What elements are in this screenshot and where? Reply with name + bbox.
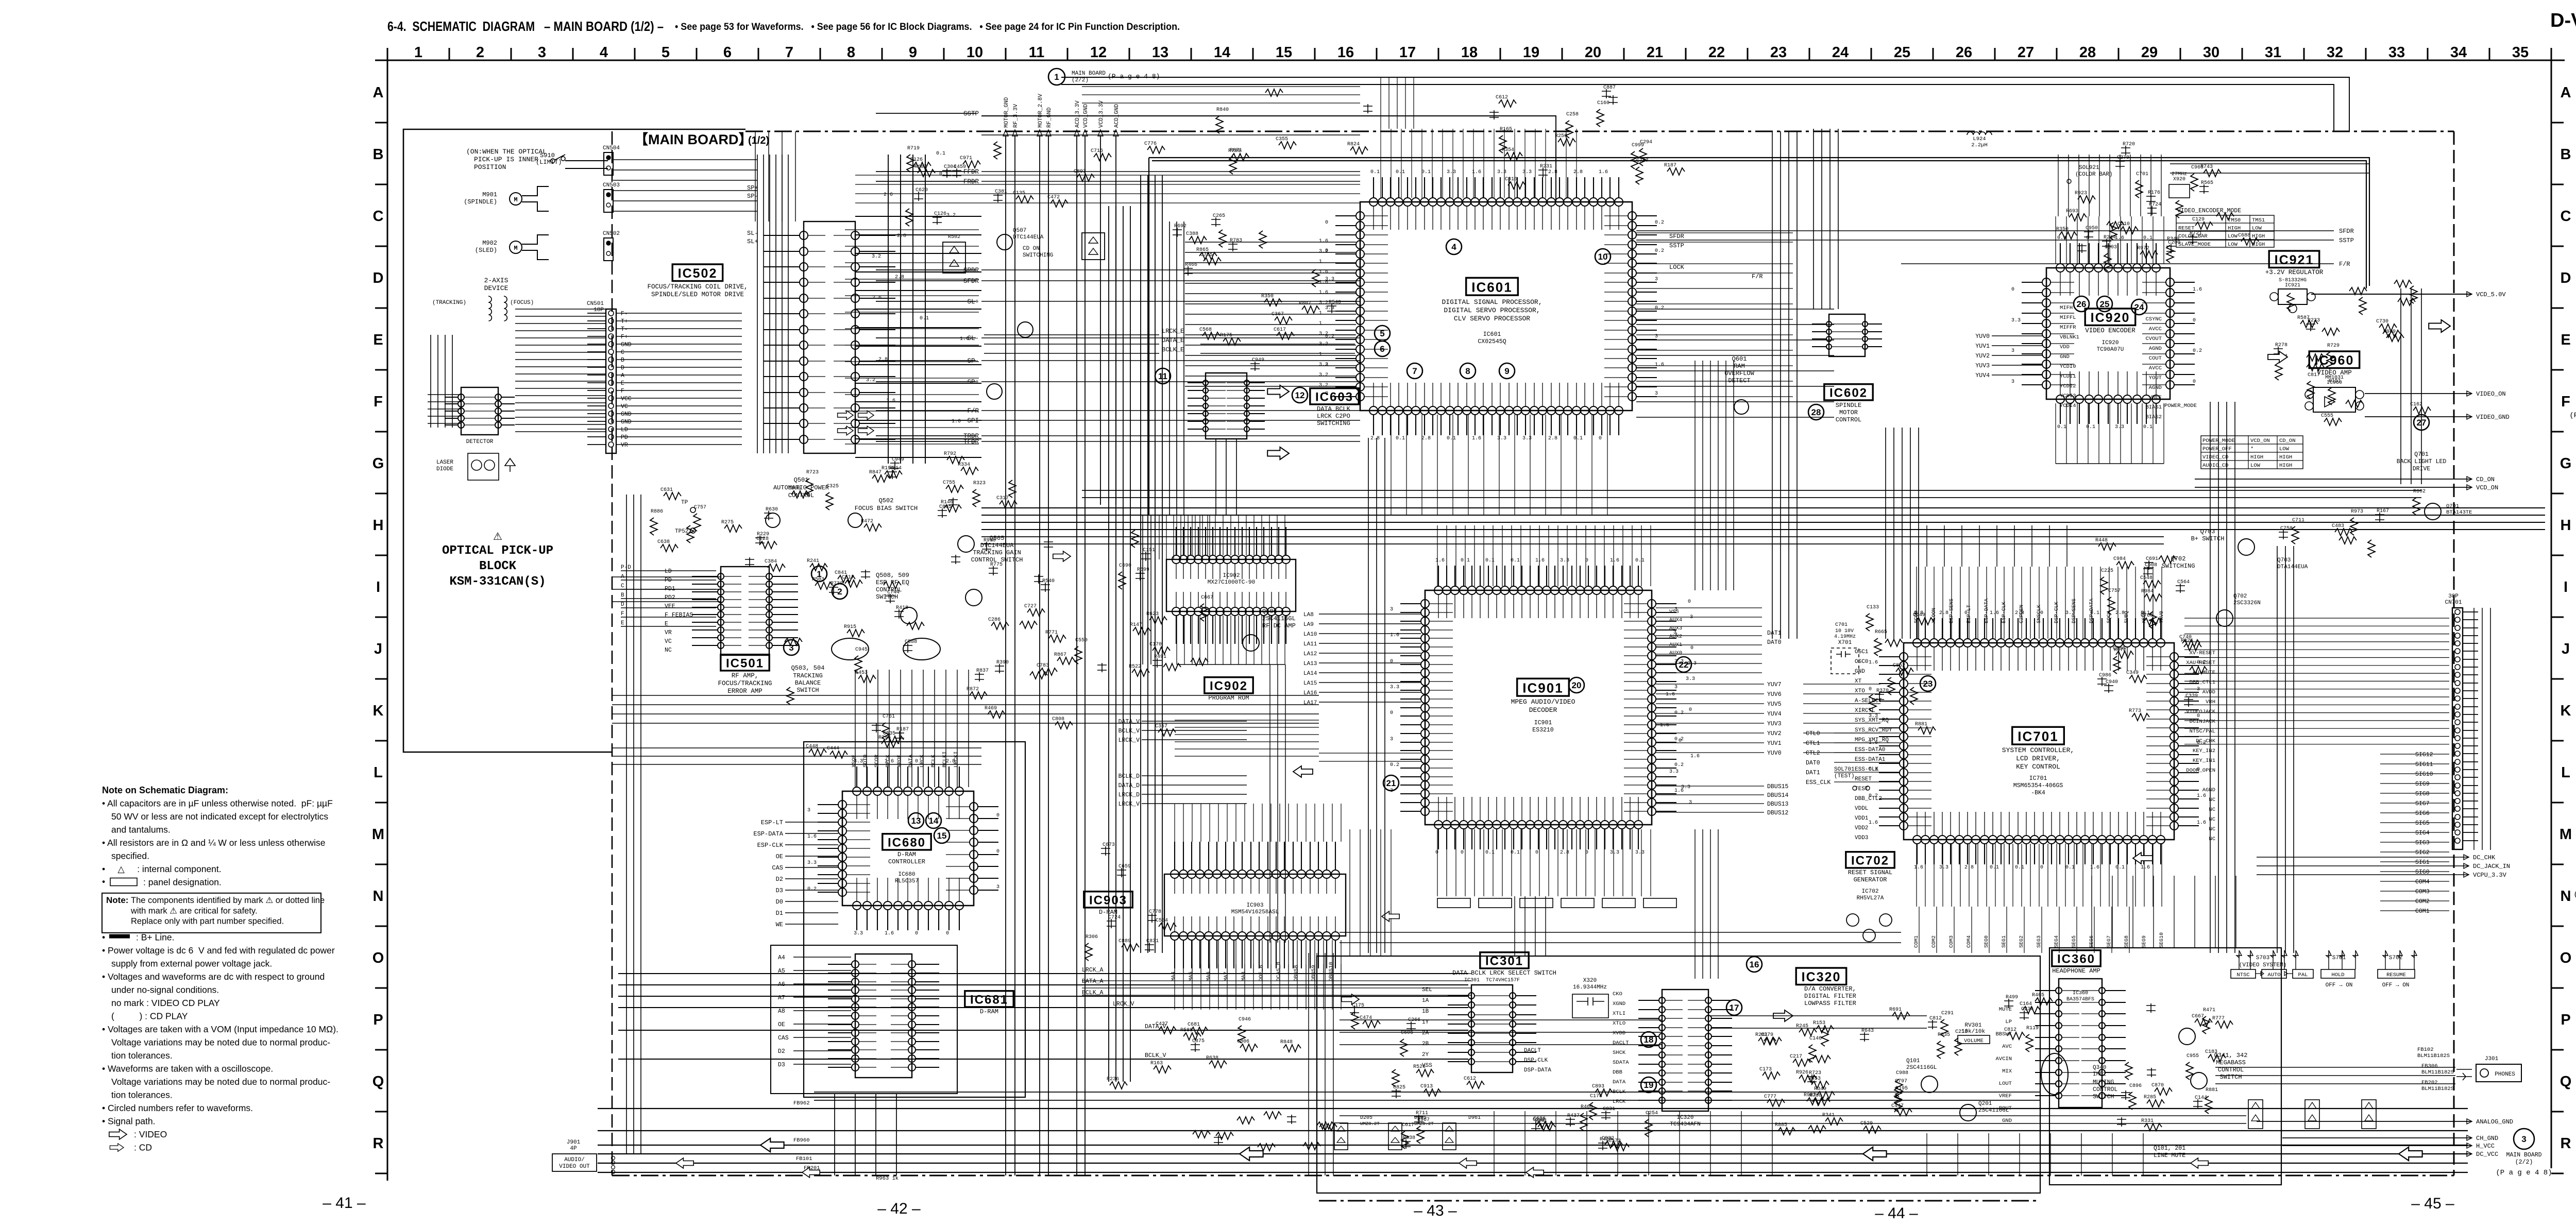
svg-text:0.1: 0.1 xyxy=(1421,169,1431,175)
svg-text:LA17: LA17 xyxy=(1303,700,1317,706)
svg-text:R867: R867 xyxy=(1054,652,1066,658)
svg-text:DETECT: DETECT xyxy=(1728,377,1750,384)
svg-text:FB202: FB202 xyxy=(2421,1080,2438,1086)
svg-text:AUX1: AUX1 xyxy=(1669,642,1682,648)
svg-text:BTA143TE: BTA143TE xyxy=(2446,509,2472,516)
svg-text:Note:: Note: xyxy=(106,895,128,905)
svg-text:Q: Q xyxy=(372,1073,384,1090)
svg-text:and tantalums.: and tantalums. xyxy=(111,825,171,835)
svg-text:IC701: IC701 xyxy=(2029,775,2047,782)
IC960 chip xyxy=(2313,387,2355,412)
svg-text:SYSTEM CONTROLLER,: SYSTEM CONTROLLER, xyxy=(2002,746,2074,754)
svg-text:HIGH: HIGH xyxy=(2252,233,2265,240)
IC681 D-RAM chip xyxy=(855,954,912,1078)
svg-text:BCLK_A: BCLK_A xyxy=(1082,990,1104,996)
svg-text:YCDI3: YCDI3 xyxy=(2060,393,2076,399)
svg-text:C349: C349 xyxy=(2126,670,2139,676)
svg-text:C971: C971 xyxy=(960,156,972,161)
svg-text:FOCUS BIAS SWITCH: FOCUS BIAS SWITCH xyxy=(855,505,918,512)
svg-text:YUV5: YUV5 xyxy=(1767,701,1782,708)
svg-text:D: D xyxy=(373,270,384,286)
svg-text:COM1: COM1 xyxy=(1914,935,1920,948)
svg-text:ANALOG_GND: ANALOG_GND xyxy=(2476,1118,2513,1126)
wire v 3290 lower xyxy=(1695,829,1718,979)
wire risers right audio xyxy=(1927,1133,2143,1175)
svg-text:K: K xyxy=(2561,703,2571,719)
svg-text:1A: 1A xyxy=(1422,998,1429,1004)
svg-text:Q101, 201: Q101, 201 xyxy=(2154,1145,2185,1152)
IC601 label xyxy=(1466,278,1518,295)
svg-text:31: 31 xyxy=(2265,44,2281,61)
svg-text:8: 8 xyxy=(1465,366,1470,376)
svg-text:C160: C160 xyxy=(1597,100,1609,106)
svg-text:50 WV or less are not indicate: 50 WV or less are not indicated except f… xyxy=(111,811,328,822)
svg-text:VDDL: VDDL xyxy=(1855,806,1868,812)
IC903 D-RAM xyxy=(1164,874,1346,936)
svg-text:ESS-CLK: ESS-CLK xyxy=(1855,766,1879,773)
megabass verticals xyxy=(2092,876,2236,948)
IC681 label xyxy=(965,991,1013,1007)
svg-text:R719: R719 xyxy=(907,146,920,151)
svg-text:2SC3326N: 2SC3326N xyxy=(2233,600,2261,606)
svg-text:R984: R984 xyxy=(2141,589,2154,594)
svg-text:M: M xyxy=(2560,826,2572,843)
svg-text:IC901: IC901 xyxy=(1522,680,1563,695)
svg-text:IC603: IC603 xyxy=(1315,390,1353,404)
svg-text:ESP-SENS: ESP-SENS xyxy=(1949,599,1955,623)
svg-text:C688: C688 xyxy=(2238,233,2250,238)
svg-text:SUBQ: SUBQ xyxy=(2124,611,2130,623)
svg-text:H: H xyxy=(2561,517,2571,534)
svg-text:C812: C812 xyxy=(2004,1027,2016,1033)
svg-text:MX27C1000TC-90: MX27C1000TC-90 xyxy=(1208,580,1255,586)
svg-text:2.8: 2.8 xyxy=(897,233,906,239)
svg-text:N: N xyxy=(2561,888,2571,905)
svg-text:DBUS13: DBUS13 xyxy=(1767,801,1789,808)
svg-text:POWER_MODE: POWER_MODE xyxy=(2164,403,2197,409)
svg-text:VREF: VREF xyxy=(1999,1093,2012,1099)
svg-text:IC301: IC301 xyxy=(1485,955,1523,968)
IC603 switch IC xyxy=(1206,373,1247,439)
wire IC902 top bus xyxy=(1177,515,1285,555)
IC320 DAC chip xyxy=(1662,990,1708,1111)
IC602 label xyxy=(1824,384,1873,400)
svg-text:R602: R602 xyxy=(2413,489,2426,495)
svg-text:COM4: COM4 xyxy=(2415,879,2430,885)
svg-text:BCLKI: BCLKI xyxy=(942,751,948,768)
svg-text:VIDEO_ENCODER_MODE: VIDEO_ENCODER_MODE xyxy=(2177,208,2241,214)
svg-text:C133: C133 xyxy=(1867,605,1879,610)
svg-text:AUX0: AUX0 xyxy=(1669,650,1682,656)
svg-text:SEG5: SEG5 xyxy=(2072,935,2077,948)
IC602 spindle motor control IC xyxy=(1829,314,1865,356)
svg-text:3.3: 3.3 xyxy=(807,860,817,866)
svg-text:1.6: 1.6 xyxy=(2141,865,2150,871)
svg-text:1.6: 1.6 xyxy=(2193,287,2202,293)
muting control switch xyxy=(2041,1053,2068,1095)
X920 crystal xyxy=(2169,184,2190,198)
svg-text:A4: A4 xyxy=(778,955,785,961)
svg-text:YUV2: YUV2 xyxy=(1975,353,1990,360)
svg-text:P: P xyxy=(373,1012,383,1028)
svg-text:(TEST): (TEST) xyxy=(1834,773,1855,779)
svg-text:0: 0 xyxy=(2193,318,2196,323)
svg-text:LOW: LOW xyxy=(2228,233,2238,240)
svg-text:0.1: 0.1 xyxy=(2086,424,2095,430)
svg-text:DEVICE: DEVICE xyxy=(484,284,509,292)
svg-text:C966: C966 xyxy=(2191,165,2204,171)
svg-text:3: 3 xyxy=(1689,800,1692,806)
svg-text:VDD1: VDD1 xyxy=(1855,815,1869,822)
svg-text:VCD_ON: VCD_ON xyxy=(2250,438,2270,444)
wire CN701 harness xyxy=(2277,618,2449,744)
wire v 3290 group xyxy=(1695,361,1734,590)
svg-text:MPG_XMT_RQ: MPG_XMT_RQ xyxy=(1855,737,1889,743)
svg-text:R453: R453 xyxy=(1808,1076,1821,1082)
svg-text:6-4. SCHEMATIC DIAGRAM: 6-4. SCHEMATIC DIAGRAM xyxy=(387,19,535,34)
svg-text:A: A xyxy=(373,84,384,101)
wire IC502 right to bus xyxy=(845,230,979,444)
svg-text:27MHz: 27MHz xyxy=(2172,172,2187,177)
wire IC502 drive outputs xyxy=(855,216,981,457)
svg-text:• Voltages are taken with a VO: • Voltages are taken with a VOM (Input i… xyxy=(102,1024,338,1034)
svg-text:9: 9 xyxy=(1504,366,1509,376)
svg-text:C885: C885 xyxy=(939,504,952,510)
svg-text:R847: R847 xyxy=(869,470,882,475)
svg-text:0: 0 xyxy=(1535,850,1538,856)
svg-text:23: 23 xyxy=(1923,679,1933,689)
svg-text:AUDIO_CD: AUDIO_CD xyxy=(2202,463,2228,469)
svg-text:2SC4116GL: 2SC4116GL xyxy=(1906,1065,1937,1071)
svg-text:1.6: 1.6 xyxy=(1660,723,1669,728)
svg-text:3: 3 xyxy=(1390,607,1393,612)
svg-text:R187: R187 xyxy=(1664,163,1676,168)
svg-text:C483: C483 xyxy=(2332,523,2344,529)
IC301 select switch IC xyxy=(1471,985,1513,1072)
svg-text:COM3: COM3 xyxy=(1949,935,1955,948)
svg-text:SIG12: SIG12 xyxy=(2415,752,2433,758)
svg-text:1: 1 xyxy=(817,569,821,579)
svg-text:PAL: PAL xyxy=(2298,972,2308,978)
svg-text:1.6: 1.6 xyxy=(1914,865,1923,871)
svg-text:DATA_D: DATA_D xyxy=(1118,782,1140,789)
svg-text:C566: C566 xyxy=(2113,646,2125,652)
svg-text:A7: A7 xyxy=(778,995,785,1001)
svg-text:A: A xyxy=(621,372,624,379)
svg-text:Q703: Q703 xyxy=(2277,557,2291,564)
wire IC920 top xyxy=(2056,216,2164,264)
svg-text:ESP-DATA: ESP-DATA xyxy=(753,830,783,838)
svg-text:YUV1: YUV1 xyxy=(1767,740,1782,747)
svg-text:C: C xyxy=(621,349,624,356)
svg-text:• △ : internal compone: • △ : internal component. xyxy=(102,864,222,874)
power mode table xyxy=(2201,436,2303,469)
wire LRCK_A rows xyxy=(618,974,1468,1008)
component scatter IC921 area xyxy=(2287,293,2294,311)
svg-text:TC9434AFN: TC9434AFN xyxy=(1670,1121,1700,1128)
wire left low bundle xyxy=(626,495,641,1154)
svg-text:C504: C504 xyxy=(1156,918,1168,924)
wire optical harness xyxy=(515,309,606,432)
svg-text:SIG5: SIG5 xyxy=(2415,820,2430,827)
svg-text:The components identified by m: The components identified by mark ⚠ or d… xyxy=(131,896,325,905)
svg-text:C453: C453 xyxy=(855,670,868,676)
svg-text:LA16: LA16 xyxy=(1303,690,1317,696)
svg-text:DATA: DATA xyxy=(1613,1079,1626,1085)
component scatter audio xyxy=(1895,1095,1902,1112)
svg-text:R923: R923 xyxy=(2075,191,2087,196)
svg-text:C831: C831 xyxy=(1603,1106,1615,1112)
svg-text:R176: R176 xyxy=(2148,190,2160,196)
wave marks IC901 xyxy=(1569,677,1584,693)
wire IC502 left harness xyxy=(757,155,788,453)
svg-text:R126: R126 xyxy=(910,157,923,163)
wire LCD column xyxy=(2277,546,2294,953)
svg-text:R587: R587 xyxy=(2297,315,2310,321)
svg-text:AVCC: AVCC xyxy=(2149,326,2162,332)
svg-text:D205: D205 xyxy=(1360,1115,1372,1121)
svg-text:Q201: Q201 xyxy=(1978,1101,1992,1107)
svg-text:F: F xyxy=(621,388,624,395)
connector CN501 18P xyxy=(606,309,616,453)
svg-text:0: 0 xyxy=(2193,379,2196,385)
component scatter above IC601 xyxy=(1602,89,1611,98)
svg-text:1.6: 1.6 xyxy=(960,336,969,342)
svg-text:SIG11: SIG11 xyxy=(2415,761,2433,768)
svg-text:R119: R119 xyxy=(2026,1026,2039,1031)
svg-text:0.2: 0.2 xyxy=(1674,762,1684,768)
svg-text:YUV3: YUV3 xyxy=(1975,363,1990,369)
svg-text:C889: C889 xyxy=(1118,939,1131,944)
svg-text:19: 19 xyxy=(1644,1080,1654,1090)
wire IC903 bottom bus xyxy=(1175,964,1341,1010)
svg-text:VSS: VSS xyxy=(1669,609,1679,615)
svg-text:0: 0 xyxy=(1689,707,1692,713)
svg-text:tion tolerances.: tion tolerances. xyxy=(111,1090,173,1100)
IC680 D-RAM controller xyxy=(842,791,974,906)
svg-text:VDD2: VDD2 xyxy=(1855,825,1868,831)
svg-text:-BK4: -BK4 xyxy=(2031,790,2045,796)
svg-text:X701: X701 xyxy=(1838,640,1852,646)
component scatter row H left xyxy=(687,525,694,543)
wire IC501 outputs xyxy=(612,695,1319,723)
svg-text:0.1: 0.1 xyxy=(1635,558,1645,564)
svg-text:12: 12 xyxy=(1295,390,1305,400)
svg-text:0: 0 xyxy=(915,931,918,936)
svg-text:DIGITAL FILTER: DIGITAL FILTER xyxy=(1804,993,1856,1000)
svg-text:R643: R643 xyxy=(1861,1028,1874,1034)
component scatter megabass xyxy=(2121,1090,2130,1100)
svg-text:DSP-CLK: DSP-CLK xyxy=(1524,1058,1548,1064)
svg-text:CAS: CAS xyxy=(772,864,783,872)
connector ref 1 to main board 2/2 xyxy=(1048,69,1065,85)
svg-text:• Signal path.: • Signal path. xyxy=(102,1116,155,1127)
svg-text:26: 26 xyxy=(1956,44,1972,61)
svg-text:0.1: 0.1 xyxy=(1573,436,1583,441)
svg-text:C437: C437 xyxy=(1156,1021,1168,1027)
IC320 label xyxy=(1796,968,1846,985)
svg-text:PD2: PD2 xyxy=(665,594,675,601)
svg-text:C945: C945 xyxy=(855,647,868,653)
svg-text:C817: C817 xyxy=(2308,372,2320,378)
laser diode xyxy=(468,453,499,480)
svg-text:2.8: 2.8 xyxy=(1560,850,1569,856)
svg-text:R275: R275 xyxy=(721,520,734,525)
svg-text:R630: R630 xyxy=(766,507,778,513)
svg-text:2.8: 2.8 xyxy=(2115,610,2125,616)
svg-text:BLOCK: BLOCK xyxy=(479,559,517,573)
svg-text:IC702: IC702 xyxy=(1861,889,1878,895)
svg-text:26: 26 xyxy=(2077,299,2087,309)
svg-text:R241: R241 xyxy=(807,558,819,564)
svg-text:FB962: FB962 xyxy=(793,1100,810,1106)
svg-text:9: 9 xyxy=(909,44,917,61)
svg-text:CN701: CN701 xyxy=(2445,600,2462,606)
svg-text:MIX: MIX xyxy=(2002,1068,2012,1075)
svg-text:3: 3 xyxy=(1673,630,1676,636)
svg-text:K: K xyxy=(373,703,384,719)
diode bridge D502 xyxy=(943,242,965,273)
svg-text:YUV0: YUV0 xyxy=(1767,750,1782,757)
wire h 1120-1180 left xyxy=(612,577,721,602)
svg-text:21: 21 xyxy=(1647,44,1663,61)
svg-text:OSC1: OSC1 xyxy=(1855,649,1869,655)
svg-text:VDD: VDD xyxy=(2060,344,2070,350)
svg-text:DBB: DBB xyxy=(1613,1069,1622,1076)
svg-text:DTA144EUA: DTA144EUA xyxy=(2277,564,2308,570)
svg-text:R729: R729 xyxy=(2327,343,2340,349)
svg-text:CD_ON: CD_ON xyxy=(2476,476,2495,483)
svg-text:3.3: 3.3 xyxy=(1669,769,1679,775)
svg-text:1.6: 1.6 xyxy=(2197,820,2206,826)
svg-text:IC702: IC702 xyxy=(1851,854,1889,868)
svg-text:AVCC: AVCC xyxy=(2149,365,2162,371)
svg-text:R826: R826 xyxy=(2181,638,2193,644)
wire right column nets xyxy=(1772,131,1797,639)
svg-text:LRCK C2PO: LRCK C2PO xyxy=(1317,413,1350,420)
svg-text:KEY CONTROL: KEY CONTROL xyxy=(2016,763,2060,771)
svg-text:SNSCLK: SNSCLK xyxy=(2037,605,2042,623)
IC701 label xyxy=(2012,727,2064,744)
svg-text:R792: R792 xyxy=(944,451,956,457)
svg-text:3.2: 3.2 xyxy=(1319,300,1328,306)
IC901 MPEG audio/video decoder xyxy=(1425,590,1652,825)
svg-text:C339: C339 xyxy=(2185,693,2198,699)
svg-text:– MAIN BOARD (1/2) –: – MAIN BOARD (1/2) – xyxy=(544,19,664,34)
svg-text:CLV SERVO PROCESSOR: CLV SERVO PROCESSOR xyxy=(1454,315,1530,322)
svg-text:LA15: LA15 xyxy=(1303,680,1317,687)
svg-text:DIODE: DIODE xyxy=(436,466,453,472)
svg-text:R390: R390 xyxy=(996,660,1009,666)
svg-text:MA8: MA8 xyxy=(1241,972,1247,981)
svg-text:(P a g e 4 8): (P a g e 4 8) xyxy=(1108,73,1160,80)
svg-text:C875: C875 xyxy=(1192,1038,1205,1044)
svg-text:BCLK_V: BCLK_V xyxy=(1118,728,1140,735)
svg-text:SP-: SP- xyxy=(967,357,979,365)
svg-text:TMS0: TMS0 xyxy=(2228,217,2241,224)
svg-text:CN503: CN503 xyxy=(603,182,620,189)
svg-text:R448: R448 xyxy=(2095,538,2108,543)
svg-text:LA9: LA9 xyxy=(1303,622,1314,628)
connector ref 3b to main board 2/2 xyxy=(2514,1129,2534,1149)
svg-text:3.3: 3.3 xyxy=(1610,850,1619,856)
svg-text:Replace only with part number: Replace only with part number specified. xyxy=(131,917,284,926)
svg-text:C325: C325 xyxy=(826,484,839,489)
svg-text:Q701: Q701 xyxy=(2446,503,2459,509)
wire IC601 to IC902 bus xyxy=(1159,515,1210,559)
IC960 label xyxy=(2309,351,2360,368)
vertical bus V2 xyxy=(1141,175,1162,953)
svg-text:3: 3 xyxy=(2197,687,2200,692)
svg-text:BLM11B182S: BLM11B182S xyxy=(2421,1069,2454,1076)
svg-text:14: 14 xyxy=(929,816,939,826)
svg-text:0.2: 0.2 xyxy=(1390,762,1399,768)
svg-text:BIAS1: BIAS1 xyxy=(2145,404,2162,411)
svg-text:MAIN BOARD: MAIN BOARD xyxy=(2506,1152,2541,1158)
svg-text:(VIDEO SYSTEM): (VIDEO SYSTEM) xyxy=(2239,962,2286,968)
svg-text:R691: R691 xyxy=(1889,1007,1902,1013)
svg-text:LOCK: LOCK xyxy=(1669,264,1685,271)
svg-text:F: F xyxy=(621,611,624,617)
svg-text:SWITCH: SWITCH xyxy=(2093,1094,2114,1100)
IC702 part xyxy=(1846,914,1859,926)
svg-text:0.1: 0.1 xyxy=(2057,424,2066,430)
svg-text:L: L xyxy=(2561,764,2570,781)
svg-text:DSP-DATA: DSP-DATA xyxy=(2089,599,2095,623)
svg-text:SHCK: SHCK xyxy=(1613,1050,1626,1056)
svg-text:BALANCE: BALANCE xyxy=(795,679,821,687)
svg-text:DC_CHK: DC_CHK xyxy=(2473,854,2496,861)
svg-text:C812: C812 xyxy=(1929,1016,1942,1021)
svg-text:FB960: FB960 xyxy=(793,1137,810,1144)
IC920 label xyxy=(2085,309,2136,326)
svg-text:3.3: 3.3 xyxy=(1497,169,1506,175)
svg-text:C701: C701 xyxy=(2136,172,2148,177)
svg-text:*: * xyxy=(2250,446,2253,452)
svg-text:C355: C355 xyxy=(1276,137,1288,142)
svg-text:HIGH: HIGH xyxy=(2250,454,2263,461)
svg-text:+3.2V REGULATOR: +3.2V REGULATOR xyxy=(2265,269,2324,276)
svg-text:R840: R840 xyxy=(1216,107,1229,113)
svg-text:R973: R973 xyxy=(2351,509,2363,515)
svg-text:SWITCH: SWITCH xyxy=(796,687,819,694)
svg-text:R163: R163 xyxy=(1150,1061,1163,1066)
svg-text:UMZ8.2T: UMZ8.2T xyxy=(1360,1121,1380,1127)
svg-text:C955: C955 xyxy=(2187,1053,2199,1059)
IC502 focus/tracking coil drive IC xyxy=(804,221,855,453)
svg-text:R540: R540 xyxy=(1042,578,1055,584)
svg-text:24: 24 xyxy=(1832,44,1849,61)
svg-text:VOLUME: VOLUME xyxy=(1964,1038,1984,1044)
IC903 bottom drops xyxy=(1175,940,1341,974)
svg-text:33: 33 xyxy=(2388,44,2405,61)
svg-text:0: 0 xyxy=(1325,220,1328,226)
svg-text:DBB_CTL2: DBB_CTL2 xyxy=(1855,796,1882,802)
component scatter IC960 area xyxy=(2307,381,2314,399)
svg-text:14: 14 xyxy=(1214,44,1230,61)
svg-text:OSC0: OSC0 xyxy=(1855,659,1868,665)
svg-text:3: 3 xyxy=(2011,348,2014,354)
wire detector leads xyxy=(428,395,461,423)
svg-text:DATA_A: DATA_A xyxy=(1082,978,1104,985)
svg-text:MOTOR_2.8V: MOTOR_2.8V xyxy=(1038,94,1044,128)
svg-text:XTO: XTO xyxy=(1855,688,1865,694)
svg-text:10: 10 xyxy=(967,44,983,61)
wire IC701 top bus xyxy=(1917,567,2162,639)
svg-text:C825: C825 xyxy=(1393,1085,1405,1090)
svg-text:35: 35 xyxy=(2512,44,2529,61)
R7xx cluster xyxy=(2132,713,2149,721)
